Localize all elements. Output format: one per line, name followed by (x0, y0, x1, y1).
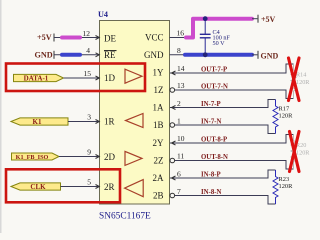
wire pin 8 GND (170, 54, 187, 56)
svg-text:13: 13 (177, 81, 185, 90)
svg-text:SN65C1167E: SN65C1167E (99, 212, 151, 222)
svg-text:9: 9 (87, 148, 91, 157)
svg-text:2Z: 2Z (154, 156, 164, 166)
svg-text:1R: 1R (104, 117, 115, 127)
svg-text:K1_FB_ISO: K1_FB_ISO (16, 154, 49, 161)
wire pin 6 IN-8-P (170, 170, 276, 178)
svg-text:120R: 120R (279, 113, 294, 120)
wire to GND port (252, 54, 258, 56)
power port GND (right) (257, 51, 259, 59)
svg-text:1A: 1A (153, 103, 165, 113)
svg-text:6: 6 (177, 170, 181, 179)
buffer triangle 2R (125, 180, 144, 197)
svg-text:OUT-8-N: OUT-8-N (201, 154, 228, 161)
svg-text:2D: 2D (104, 152, 116, 162)
wire pin 14 OUT-7-P (170, 64, 294, 73)
svg-text:3: 3 (87, 113, 91, 122)
svg-text:OUT-8-P: OUT-8-P (201, 137, 227, 144)
svg-text:10: 10 (177, 134, 185, 143)
svg-text:2Y: 2Y (153, 138, 165, 148)
svg-text:+5V: +5V (261, 15, 276, 24)
power port +5V (right) (257, 15, 259, 23)
pin 13 bubble (170, 88, 175, 93)
resistor R23 (273, 170, 278, 204)
svg-text:GND: GND (144, 50, 164, 60)
pin 9 arrow (96, 155, 100, 159)
junction dot on GND (203, 52, 208, 57)
pin 7 bubble (170, 193, 175, 198)
svg-text:2A: 2A (153, 173, 165, 183)
buffer triangle 1D (125, 69, 142, 83)
svg-text:GND: GND (35, 50, 53, 59)
buffer triangle 1R (126, 114, 144, 128)
buffer triangle 2D (125, 151, 142, 165)
svg-text:5: 5 (87, 178, 91, 187)
svg-text:OUT-7-N: OUT-7-N (201, 84, 228, 91)
wire pin 7 IN-8-N (174, 196, 276, 205)
wire pin 16 VCC (170, 37, 195, 39)
wire pin 10 OUT-8-P (170, 135, 294, 144)
pin 4 arrow (96, 53, 100, 57)
highlighted GND net (blue) (185, 53, 252, 57)
svg-text:R14: R14 (296, 72, 306, 79)
svg-text:DATA-1: DATA-1 (24, 75, 49, 83)
svg-text:R23: R23 (279, 176, 290, 183)
pin RE overline (104, 50, 117, 52)
svg-text:120R: 120R (279, 183, 294, 190)
svg-text:1Z: 1Z (154, 85, 164, 95)
svg-text:15: 15 (84, 69, 92, 78)
svg-text:12: 12 (83, 29, 91, 38)
svg-text:8: 8 (177, 46, 181, 55)
wire CLK to pin 5 (61, 186, 100, 188)
op-amp U4 body (SN65C1167E) (100, 21, 170, 205)
wire pin 2 IN-7-P (170, 100, 276, 108)
wire K1 to pin 3 (68, 121, 100, 123)
svg-text:2B: 2B (153, 191, 164, 201)
pin 2 arrow (172, 106, 176, 110)
highlighted +5V net (magenta) (186, 19, 252, 38)
svg-text:U4: U4 (98, 10, 108, 19)
svg-text:GND: GND (261, 51, 279, 60)
svg-text:1B: 1B (153, 120, 164, 130)
svg-text:1D: 1D (104, 73, 116, 83)
highlighted wire segment (blue) on GND (62, 53, 80, 57)
svg-text:+5V: +5V (37, 33, 52, 42)
svg-text:IN-7-N: IN-7-N (201, 119, 221, 126)
pin 6 arrow (172, 176, 176, 180)
svg-text:14: 14 (177, 64, 185, 73)
svg-text:4: 4 (86, 46, 90, 55)
svg-text:IN-8-P: IN-8-P (201, 172, 221, 179)
capacitor C4 (204, 19, 206, 35)
pin 3 arrow (96, 120, 100, 124)
wire pin 13 OUT-7-N (174, 90, 294, 99)
svg-text:2R: 2R (104, 182, 115, 192)
pin 5 arrow (96, 185, 100, 189)
highlight box around CLK path (6, 169, 120, 202)
svg-text:K1: K1 (33, 118, 42, 126)
pin 1 bubble (170, 123, 175, 128)
wire pin 1 IN-7-N (174, 125, 276, 134)
pin 10 arrow (172, 141, 176, 145)
pin 11 bubble (170, 158, 175, 163)
wire pin 11 OUT-8-N (174, 161, 294, 170)
svg-text:CLK: CLK (30, 183, 46, 191)
red X over R20 (290, 132, 300, 172)
wire GND to pin 4 (54, 54, 100, 56)
svg-text:VCC: VCC (145, 33, 164, 43)
svg-text:RE: RE (104, 50, 116, 60)
svg-text:7: 7 (177, 187, 181, 196)
pin 12 arrow (96, 36, 100, 40)
svg-text:50 V: 50 V (213, 40, 226, 47)
resistor R14 (disabled, gray) (291, 64, 296, 99)
wire DATA-1 to pin 15 (64, 77, 100, 79)
svg-text:1: 1 (177, 117, 181, 126)
svg-text:OUT-7-P: OUT-7-P (201, 67, 227, 74)
svg-text:120R: 120R (296, 79, 310, 86)
wire to +5V port (252, 18, 258, 20)
pin 15 arrow (96, 76, 100, 80)
resistor R17 (273, 100, 278, 134)
junction dot on +5V (203, 16, 208, 21)
svg-text:IN-7-P: IN-7-P (201, 101, 221, 108)
svg-text:R17: R17 (279, 106, 290, 113)
svg-text:DE: DE (104, 34, 116, 44)
wire +5V to pin 12 (54, 37, 100, 39)
svg-text:120R: 120R (296, 150, 310, 157)
port K1 flag (11, 118, 68, 125)
svg-text:1Y: 1Y (153, 68, 165, 78)
red X over R14 (289, 58, 300, 101)
highlighted wire segment (magenta) on +5V (62, 36, 80, 40)
port DATA-1 flag (14, 74, 64, 81)
highlight box around DATA-1 path (6, 64, 145, 92)
svg-text:16: 16 (177, 29, 185, 38)
resistor R20 (disabled, gray) (291, 135, 296, 170)
port CLK flag (11, 183, 61, 190)
pin 14 arrow (172, 71, 176, 75)
svg-text:2: 2 (177, 99, 181, 108)
svg-text:11: 11 (177, 152, 184, 161)
port K1_FB_ISO flag (12, 153, 60, 160)
svg-text:IN-8-N: IN-8-N (201, 189, 221, 196)
wire K1_FB_ISO to pin 9 (59, 156, 100, 158)
